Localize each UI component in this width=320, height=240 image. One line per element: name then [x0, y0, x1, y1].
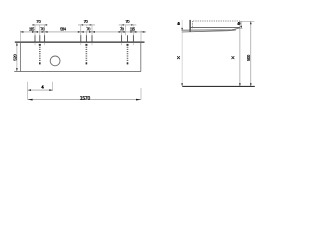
small bottom dim extension line right — [52, 82, 54, 91]
side view: washbasin front edge (thick) — [189, 20, 191, 32]
extension line left corner — [19, 31, 21, 42]
horizontal dimension chain line — [20, 31, 146, 33]
svg-text:520: 520 — [13, 54, 18, 61]
label x right (vector glyph) — [232, 56, 234, 58]
front view: cabinet top edge (thick) — [15, 41, 145, 43]
small bottom dim line with arrows — [28, 89, 53, 91]
svg-text:70: 70 — [125, 19, 130, 24]
wall bolts above cabinet top — [35, 35, 133, 42]
upper dim 70 middle line with arrows — [78, 24, 95, 25]
front view: cabinet right edge — [140, 42, 142, 72]
fixing extension lines right cluster — [122, 25, 134, 35]
dimension 520 line with arrows — [16, 43, 18, 72]
chain arrows at tick 80.8 — [78, 31, 81, 33]
svg-text:70: 70 — [40, 26, 45, 31]
floor line — [182, 85, 255, 87]
svg-text:70: 70 — [84, 19, 89, 24]
extension line right corner — [140, 31, 142, 42]
upper dim 70 right line with arrows — [119, 24, 137, 25]
chain arrows at tick 92 — [89, 31, 92, 33]
small bottom dim extension line left (shared riser) — [27, 82, 29, 100]
svg-text:584: 584 — [60, 26, 66, 31]
side view: countertop underside lower line — [182, 30, 236, 32]
side view: countertop top surface — [191, 26, 240, 28]
upper dim 70 left line with arrows — [32, 24, 48, 25]
dimension 500 line with arrows — [250, 21, 252, 86]
left height dimension line with arrows — [181, 20, 183, 86]
top reference tick at rim level — [240, 20, 254, 22]
svg-text:70: 70 — [86, 26, 91, 31]
faint bolt continuations below cabinet top — [35, 43, 133, 46]
drain hole circle — [50, 56, 60, 66]
side view: countertop underside upper line — [182, 28, 240, 30]
chain arrow at right edge — [141, 31, 144, 33]
right mini dim 45 line — [238, 21, 243, 28]
svg-text:115: 115 — [29, 26, 35, 31]
dimension 1570 line with arrows — [28, 99, 141, 101]
fixing extension lines left cluster — [35, 25, 45, 35]
svg-text:70: 70 — [36, 19, 41, 24]
threaded screws inside cabinet — [40, 45, 128, 64]
chain arrows at tick 44.6 — [42, 31, 45, 33]
front view: cabinet bottom edge — [14, 71, 141, 73]
svg-text:500: 500 — [246, 54, 251, 61]
svg-text:70: 70 — [120, 26, 125, 31]
screw heads and tips — [39, 44, 129, 65]
dimension 1570 extension line right — [140, 88, 142, 100]
chain arrow at left edge — [20, 31, 23, 33]
fixing extension lines middle cluster — [81, 25, 92, 35]
side view: hidden basin rim (dashed) — [193, 20, 240, 22]
svg-text:115: 115 — [130, 26, 136, 31]
label x left (vector glyph) — [177, 56, 179, 58]
front view: cabinet left edge — [19, 42, 21, 72]
chain arrows at tick 35 — [32, 31, 35, 33]
chain arrows at tick 133.4 — [130, 31, 133, 33]
svg-text:1570: 1570 — [80, 96, 91, 102]
dimension x line with arrows — [239, 21, 241, 86]
chain arrows at tick 121.6 — [119, 31, 122, 33]
side view: hidden basin left side (dashed) — [192, 21, 194, 28]
